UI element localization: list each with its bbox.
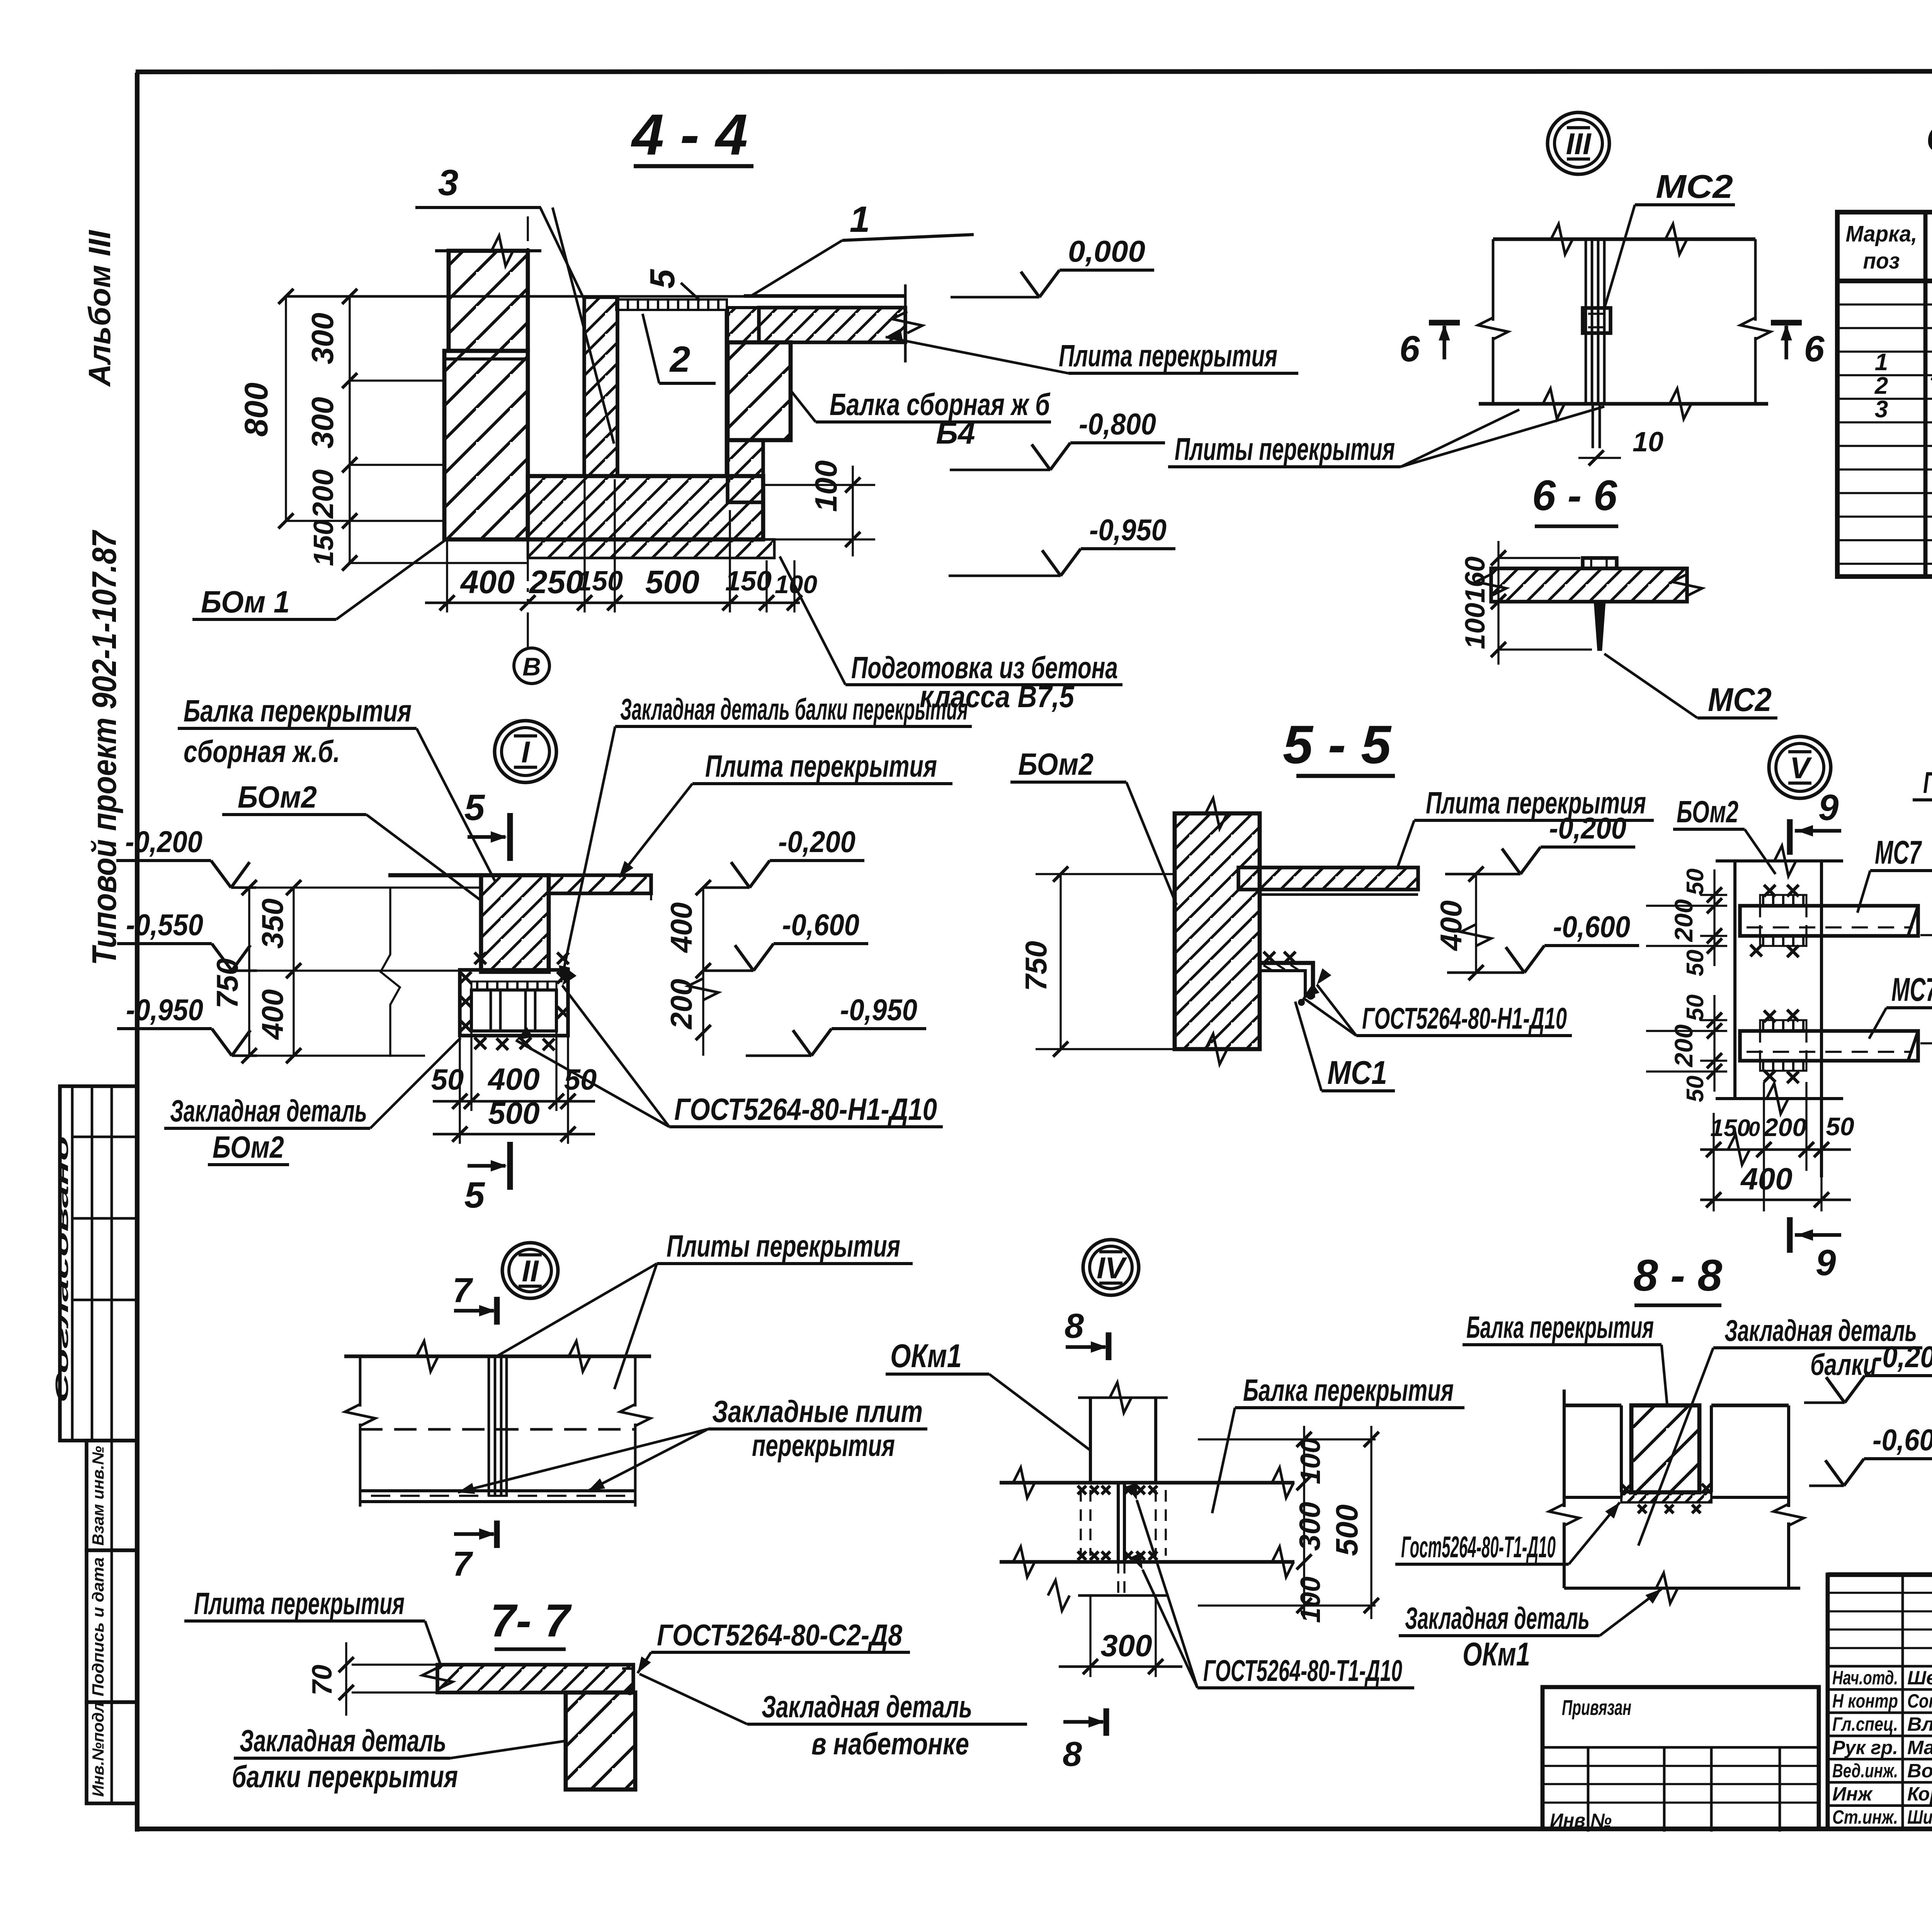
8-8 left wall edge	[1563, 1390, 1566, 1507]
svg-text:БОм2: БОм2	[1018, 747, 1094, 781]
svg-text:160: 160	[1460, 556, 1491, 603]
6-6 MC2 plate on slab	[1583, 558, 1617, 568]
podgotovka layer	[528, 539, 774, 558]
svg-text:Гл.спец.: Гл.спец.	[1832, 1713, 1898, 1735]
detail circle V	[1769, 737, 1831, 798]
svg-text:-0,200: -0,200	[125, 825, 202, 859]
section mark 5 upper	[507, 813, 513, 861]
detail circle III	[1548, 112, 1609, 174]
svg-text:600: 600	[1930, 964, 1932, 1015]
floor slab right hatched	[744, 294, 905, 298]
svg-text:-0,550: -0,550	[126, 908, 203, 942]
svg-text:200: 200	[1763, 1113, 1806, 1141]
svg-text:БОм2: БОм2	[213, 1130, 284, 1164]
svg-text:100: 100	[775, 570, 817, 599]
svg-text:200: 200	[307, 469, 340, 519]
svg-text:3: 3	[1875, 396, 1888, 423]
svg-text:9: 9	[1818, 787, 1839, 828]
axis circle V(B)	[514, 648, 549, 684]
right levels detail I	[731, 862, 750, 888]
detail IV slab band	[1000, 1481, 1294, 1484]
svg-text:-0,950: -0,950	[1089, 513, 1167, 547]
svg-text:8: 8	[1065, 1307, 1084, 1345]
svg-text:-0,600: -0,600	[1872, 1423, 1932, 1457]
svg-text:Сокольская: Сокольская	[1907, 1690, 1932, 1712]
svg-text:В: В	[522, 652, 541, 681]
svg-text:7- 7: 7- 7	[490, 1595, 572, 1647]
svg-text:750: 750	[210, 958, 244, 1009]
dim 750 5-5	[1060, 874, 1061, 1049]
detail circle II	[502, 1243, 558, 1298]
svg-text:Гост5264-80-Т1-Д10: Гост5264-80-Т1-Д10	[1401, 1530, 1556, 1564]
svg-text:Корнюкин: Корнюкин	[1907, 1783, 1932, 1805]
embedded detail BOm2 box	[460, 970, 568, 1036]
svg-text:7: 7	[452, 1271, 473, 1310]
slab 5-5 hatched	[1238, 867, 1418, 890]
detail II slab plan	[344, 1354, 651, 1358]
svg-text:Марка,: Марка,	[1846, 221, 1917, 247]
svg-text:400: 400	[664, 902, 698, 953]
svg-text:150: 150	[725, 566, 772, 597]
svg-text:Балка перекрытия: Балка перекрытия	[1466, 1310, 1654, 1344]
svg-text:МС2: МС2	[1708, 682, 1772, 718]
svg-text:100: 100	[1460, 603, 1491, 649]
svg-text:150: 150	[577, 566, 623, 597]
shield plate Sch2 item 2	[616, 299, 727, 310]
svg-text:ТП902-1-107.87-КЖ1.1Щ2: ТП902-1-107.87-КЖ1.1Щ2	[1929, 373, 1932, 399]
svg-text:Инж: Инж	[1832, 1783, 1873, 1805]
svg-text:V: V	[1790, 751, 1812, 785]
detail IV below joint dashes	[1117, 1562, 1119, 1596]
dim 400 5-5	[1475, 874, 1477, 973]
svg-text:Взам инв.№: Взам инв.№	[89, 1446, 107, 1546]
base slab hatched	[528, 476, 763, 539]
right dim chain detail I	[650, 875, 652, 900]
detail circle I	[495, 721, 556, 782]
svg-text:в набетонке: в набетонке	[811, 1726, 969, 1761]
MC1 corner angle	[1260, 963, 1313, 998]
svg-text:Плита перекрытия: Плита перекрытия	[705, 749, 937, 783]
svg-text:III: III	[1566, 127, 1591, 161]
svg-text:50: 50	[564, 1063, 597, 1096]
svg-text:Спецификация канала КЛ1: Спецификация канала КЛ1	[1926, 117, 1932, 160]
svg-text:Рук гр.: Рук гр.	[1832, 1737, 1898, 1758]
cast concrete neck hatched	[584, 297, 617, 476]
section mark 9 upper	[1787, 819, 1793, 855]
svg-text:перекрытия: перекрытия	[752, 1428, 895, 1463]
svg-text:250: 250	[529, 564, 583, 600]
8-8 right white part	[1711, 1403, 1789, 1407]
svg-text:150: 150	[308, 520, 339, 566]
section mark 7 upper	[494, 1297, 500, 1325]
svg-text:5: 5	[464, 1175, 485, 1216]
attachment stamp Privyazan	[1543, 1687, 1819, 1829]
svg-text:Закладная деталь: Закладная деталь	[240, 1723, 446, 1758]
detail IV right dims	[1198, 1438, 1376, 1440]
svg-text:Власенко: Власенко	[1907, 1713, 1932, 1735]
level -0.200 5-5	[1502, 849, 1520, 874]
svg-text:300: 300	[1100, 1628, 1152, 1663]
svg-text:0: 0	[1748, 1118, 1760, 1141]
svg-text:100: 100	[1295, 1577, 1326, 1623]
svg-text:Н контр: Н контр	[1832, 1690, 1898, 1712]
svg-text:Закладная деталь: Закладная деталь	[170, 1094, 367, 1128]
main title block signature table	[1828, 1575, 1932, 1829]
left levels detail I	[231, 862, 250, 888]
left dim chain detail I	[248, 888, 250, 1056]
plate joint line bundle	[1585, 239, 1587, 404]
x weld marks around embed	[460, 972, 471, 983]
svg-text:Инв №: Инв №	[1550, 1810, 1612, 1831]
dim 600 V	[1920, 934, 1932, 936]
svg-text:1: 1	[1875, 349, 1888, 376]
svg-text:Подпись и дата: Подпись и дата	[89, 1557, 107, 1696]
svg-text:400: 400	[255, 989, 289, 1040]
6-6 dims 160 100	[1497, 541, 1499, 665]
svg-text:МС1: МС1	[1327, 1055, 1387, 1091]
svg-text:Балка перекрытия: Балка перекрытия	[1243, 1373, 1454, 1407]
bottom dims detail I	[459, 1036, 461, 1144]
level mark -0.950	[1042, 550, 1061, 576]
left wall upper hatched	[449, 251, 528, 351]
6-6 anchor pin	[1595, 602, 1604, 650]
detail IV bottom dim 300	[1089, 1596, 1091, 1677]
lower channel MC7 side view	[1740, 1031, 1918, 1061]
8-8 level -0.600	[1825, 1460, 1844, 1486]
7-7 weld dot	[626, 1687, 634, 1695]
svg-text:50: 50	[1826, 1112, 1854, 1141]
nabetonka column under beam	[728, 440, 763, 502]
svg-text:50: 50	[431, 1063, 464, 1096]
beam B4 hatched	[728, 342, 791, 440]
svg-text:Вед.инж.: Вед.инж.	[1832, 1760, 1898, 1781]
svg-text:6 - 6: 6 - 6	[1532, 472, 1617, 519]
svg-text:Альбом III: Альбом III	[82, 230, 117, 387]
svg-text:400: 400	[1434, 900, 1468, 951]
svg-text:350: 350	[255, 898, 289, 949]
svg-text:2: 2	[1874, 373, 1888, 399]
svg-text:8 - 8: 8 - 8	[1633, 1251, 1722, 1300]
left dim chain 4-4	[285, 296, 287, 521]
svg-text:Закладные плит: Закладные плит	[712, 1394, 923, 1429]
cast zone above beam	[728, 308, 759, 342]
section mark 7 lower	[494, 1521, 500, 1548]
svg-text:300: 300	[305, 397, 340, 448]
svg-text:ГОСТ5264-80-Н1-Д10: ГОСТ5264-80-Н1-Д10	[674, 1092, 937, 1126]
svg-text:7: 7	[452, 1545, 473, 1584]
svg-text:-0,600: -0,600	[782, 908, 859, 942]
svg-text:Закладная деталь: Закладная деталь	[762, 1689, 972, 1724]
level line 0.000 through wall	[286, 295, 744, 298]
svg-text:-0,200: -0,200	[778, 825, 855, 859]
break line left of beam	[381, 887, 400, 1057]
svg-text:МС2: МС2	[1656, 168, 1733, 205]
svg-text:500: 500	[488, 1096, 539, 1130]
svg-text:0,000: 0,000	[1068, 234, 1145, 268]
svg-text:Нач.отд.: Нач.отд.	[1832, 1667, 1898, 1689]
svg-text:Закладная деталь: Закладная деталь	[1405, 1601, 1590, 1635]
svg-text:9: 9	[1816, 1242, 1836, 1283]
svg-text:Плита перекрытия: Плита перекрытия	[1059, 338, 1277, 373]
svg-text:БОм 1: БОм 1	[201, 585, 290, 619]
svg-text:Плита перекрытия: Плита перекрытия	[194, 1586, 405, 1621]
section mark 8 lower	[1104, 1708, 1109, 1736]
svg-text:-0,800: -0,800	[1079, 407, 1156, 441]
svg-text:ГОСТ5264-80-Н1-Д10: ГОСТ5264-80-Н1-Д10	[1923, 765, 1932, 799]
svg-text:МС7: МС7	[1875, 834, 1922, 871]
svg-text:750: 750	[1019, 941, 1053, 991]
bottom dims V 150 0 200 50 400	[1713, 1113, 1714, 1211]
anchor below and dim 10	[1592, 404, 1594, 448]
section mark 9 lower	[1787, 1217, 1793, 1253]
centerline 4-4 wall	[527, 216, 529, 603]
svg-text:Ст.инж.: Ст.инж.	[1832, 1806, 1898, 1828]
svg-text:Типовой проект 902-1-107.87: Типовой проект 902-1-107.87	[85, 529, 123, 965]
svg-text:Возианов: Возианов	[1907, 1760, 1932, 1781]
svg-text:200: 200	[1669, 1024, 1698, 1068]
svg-text:ГОСТ5264-80-С2-Д8: ГОСТ5264-80-С2-Д8	[657, 1618, 903, 1652]
svg-text:Б4: Б4	[936, 416, 975, 450]
svg-text:Согласовано: Согласовано	[52, 1136, 72, 1403]
sheet frame	[136, 71, 1932, 72]
svg-text:ГОСТ5264-80-Т1-Д10: ГОСТ5264-80-Т1-Д10	[1203, 1653, 1402, 1687]
svg-text:10: 10	[1633, 427, 1663, 458]
svg-text:50: 50	[1682, 950, 1709, 976]
svg-text:-0,200: -0,200	[1873, 1340, 1932, 1374]
detail circle IV	[1083, 1240, 1139, 1295]
svg-text:50: 50	[1682, 995, 1709, 1021]
svg-text:Привязан: Привязан	[1562, 1695, 1631, 1720]
dim 100 right of base	[763, 484, 875, 486]
V wall verticals	[1733, 861, 1736, 1099]
8-8 embed strip	[1621, 1492, 1711, 1502]
svg-text:-0,200: -0,200	[1549, 811, 1626, 845]
svg-text:400: 400	[487, 1062, 539, 1096]
svg-text:IV: IV	[1097, 1251, 1128, 1285]
svg-text:Мазалова: Мазалова	[1907, 1737, 1932, 1758]
level mark -0.800	[1032, 444, 1050, 470]
detail III plate joint plan	[1493, 237, 1755, 241]
left margin stamp boxes	[60, 1086, 137, 1441]
svg-text:II: II	[522, 1254, 539, 1288]
svg-text:5 - 5: 5 - 5	[1283, 714, 1392, 775]
svg-text:4 - 4: 4 - 4	[631, 102, 748, 167]
svg-text:400: 400	[1740, 1162, 1792, 1196]
svg-text:-0,950: -0,950	[840, 993, 917, 1027]
section mark 5 lower	[507, 1142, 513, 1190]
svg-text:8: 8	[1063, 1735, 1082, 1774]
left wall lower hatched	[444, 351, 528, 539]
svg-text:Закладная деталь балки перекры: Закладная деталь балки перекрытия	[620, 692, 968, 726]
svg-text:Инв.№подл: Инв.№подл	[89, 1702, 107, 1797]
svg-text:I: I	[521, 735, 530, 769]
svg-text:БОм2: БОм2	[238, 780, 317, 814]
detail IV wall plan	[1089, 1398, 1092, 1483]
MC2 clamp	[1583, 308, 1611, 333]
svg-text:6: 6	[1804, 328, 1825, 369]
wall section 5-5 hatched	[1175, 813, 1260, 1049]
svg-text:2: 2	[669, 339, 690, 380]
7-7 beam hatched	[566, 1692, 635, 1789]
svg-text:МС7: МС7	[1891, 971, 1932, 1008]
level mark 0.000	[1021, 272, 1039, 297]
svg-text:поз: поз	[1863, 248, 1900, 274]
svg-text:50: 50	[1682, 869, 1709, 895]
svg-text:сборная ж.б.: сборная ж.б.	[184, 734, 340, 769]
7-7 dim 70	[345, 1642, 347, 1716]
beam section hatched I	[481, 875, 549, 972]
specification table grid	[1837, 212, 1932, 577]
svg-text:-0,950: -0,950	[126, 993, 203, 1027]
svg-text:3: 3	[438, 162, 459, 203]
6-6 slab hatched	[1491, 568, 1687, 602]
svg-text:6: 6	[1400, 328, 1420, 369]
left dims 50 200 50 pairs V	[1700, 894, 1727, 896]
section mark 8 upper	[1106, 1332, 1112, 1360]
svg-text:100: 100	[809, 460, 843, 512]
svg-text:ОКм1: ОКм1	[1463, 1636, 1530, 1673]
svg-text:ГОСТ5264-80-Н1-Д10: ГОСТ5264-80-Н1-Д10	[1362, 1001, 1567, 1035]
slab lines I	[388, 873, 481, 878]
svg-text:800: 800	[238, 383, 274, 437]
section marks 6-6 arrows	[1429, 320, 1460, 326]
svg-text:Шейко: Шейко	[1907, 1667, 1932, 1689]
channel void walls	[616, 310, 619, 476]
svg-text:БОм2: БОм2	[1677, 794, 1738, 829]
svg-text:500: 500	[645, 564, 699, 600]
svg-text:500: 500	[1330, 1504, 1364, 1556]
svg-text:400: 400	[460, 564, 515, 600]
svg-text:1: 1	[850, 199, 870, 240]
level -0.600 5-5	[1506, 947, 1524, 973]
svg-text:100: 100	[1295, 1438, 1326, 1484]
svg-text:50: 50	[1682, 1076, 1709, 1102]
svg-text:5: 5	[464, 787, 485, 828]
8-8 lower slab line	[1564, 1587, 1800, 1590]
svg-text:Плиты перекрытия: Плиты перекрытия	[667, 1229, 900, 1263]
svg-text:70: 70	[307, 1665, 338, 1696]
svg-text:300: 300	[305, 313, 340, 364]
bottom dim chain 4-4	[425, 602, 800, 604]
svg-text:балки перекрытия: балки перекрытия	[232, 1759, 458, 1794]
svg-text:Балка перекрытия: Балка перекрытия	[184, 694, 412, 728]
svg-text:ОКм1: ОКм1	[890, 1338, 962, 1374]
svg-text:5: 5	[643, 269, 682, 289]
svg-text:Плиты перекрытия: Плиты перекрытия	[1175, 432, 1395, 467]
svg-text:150: 150	[1710, 1115, 1750, 1141]
7-7 slab hatched	[437, 1665, 633, 1692]
svg-text:200: 200	[1669, 899, 1698, 942]
svg-text:Шильмовер: Шильмовер	[1907, 1806, 1932, 1828]
svg-text:300: 300	[1294, 1502, 1327, 1551]
8-8 level -0.200	[1826, 1377, 1845, 1403]
8-8 beam hatched	[1631, 1405, 1699, 1492]
upper channel MC7 side view	[1740, 906, 1918, 936]
svg-text:-0,600: -0,600	[1553, 910, 1630, 944]
